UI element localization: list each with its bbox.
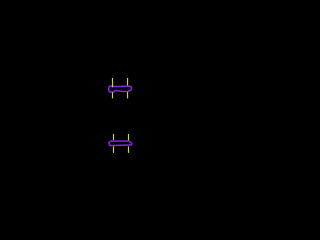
pin 2 of R2, lower segment (128, 146, 130, 153)
pin 1 of R2, lower segment (113, 146, 115, 153)
pin 1 of R1, upper segment (left vertical pin, crosses body top edge) (112, 78, 114, 87)
pin 1 of R1, lower segment (drawn over body bottom stroke) (112, 92, 114, 98)
pin 2 of R2, upper segment (right vertical pin) (128, 134, 130, 140)
pin 1 of R2, upper segment (left vertical pin) (113, 134, 115, 140)
body of R1 (sketchy purple outline, black fill) (109, 86, 132, 92)
resistor R1 (upper component) (109, 78, 132, 99)
body of R2 (sketchy purple outline with beaked right end, black fill) (109, 141, 132, 145)
resistor R2 (lower component) (109, 134, 132, 153)
pin 2 of R1, upper segment (right vertical pin) (127, 78, 129, 86)
pin 2 of R1, lower segment (127, 92, 129, 98)
